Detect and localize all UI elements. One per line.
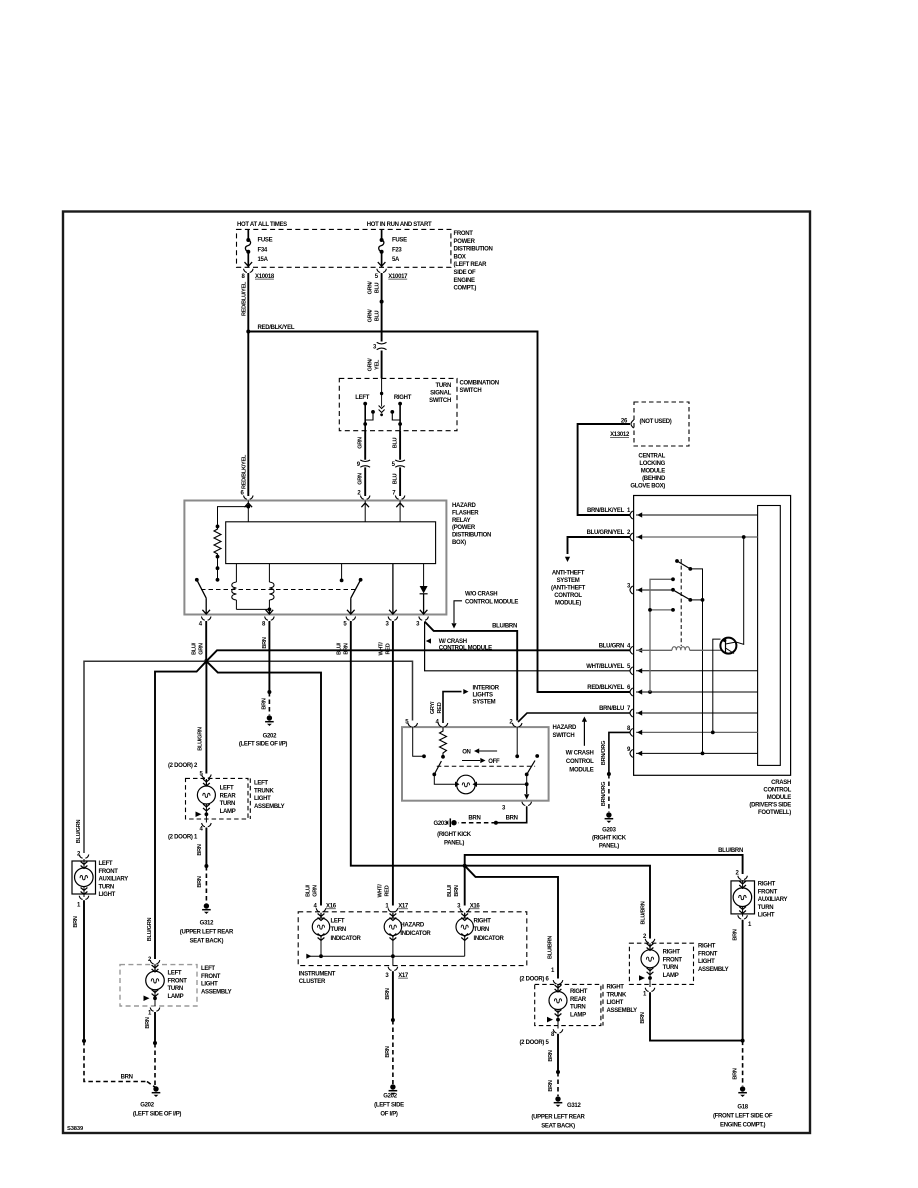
svg-text:3: 3: [502, 806, 506, 812]
svg-text:8: 8: [241, 274, 245, 280]
left trunk light assembly label: [254, 781, 285, 810]
svg-text:W/ CRASH: W/ CRASH: [566, 751, 594, 757]
crash pin 9: [627, 747, 758, 758]
svg-text:ASSEMBLY: ASSEMBLY: [698, 967, 729, 973]
left front light assembly box: [120, 965, 197, 1006]
svg-text:X10017: X10017: [388, 274, 408, 280]
svg-text:BLU/GRN: BLU/GRN: [599, 644, 624, 650]
left front auxiliary turn light pin 2 connector: [77, 852, 89, 859]
right trunk light assembly label: [607, 985, 638, 1014]
svg-text:LIGHT: LIGHT: [254, 796, 271, 802]
crash pin 7: [599, 706, 758, 717]
crash pin 8: [627, 726, 758, 737]
relay pin 3 internal wire: [392, 564, 394, 615]
hazard switch pin 4 connector: [436, 720, 448, 727]
svg-text:REAR: REAR: [220, 793, 237, 799]
in-line connector 5: [392, 460, 405, 468]
svg-text:BLU/GRN: BLU/GRN: [76, 820, 82, 844]
svg-text:BRN: BRN: [145, 1017, 151, 1028]
svg-text:GRN/: GRN/: [368, 358, 374, 372]
hazard switch resistor: [440, 727, 447, 759]
w/o crash control module annotation: [451, 592, 518, 629]
svg-text:X16: X16: [326, 904, 337, 910]
svg-text:BRN: BRN: [262, 637, 268, 648]
svg-text:G203: G203: [602, 828, 616, 834]
svg-text:YEL: YEL: [375, 359, 381, 370]
relay left switch: [195, 578, 206, 615]
node BLU/BRN distribution junction: [463, 864, 467, 868]
svg-text:1: 1: [643, 992, 647, 998]
svg-text:BRN/ORG: BRN/ORG: [601, 741, 607, 765]
left front turn lamp label: [168, 971, 188, 1000]
svg-text:REAR: REAR: [570, 997, 587, 1003]
svg-text:HAZARD: HAZARD: [553, 725, 577, 731]
crash pin 4: [599, 644, 642, 655]
combination switch label: [460, 381, 499, 395]
wire GRN/BLU from X10017 down: [381, 273, 383, 342]
wire BRN right front lamp to junction: [650, 992, 743, 1040]
label BLU/GRN below relay pin 4: [192, 642, 205, 655]
svg-text:8: 8: [262, 622, 266, 628]
svg-text:CENTRAL: CENTRAL: [638, 454, 665, 460]
left front turn lamp: [144, 965, 165, 1006]
svg-text:WHT/: WHT/: [377, 884, 383, 898]
svg-text:FRONT: FRONT: [168, 978, 188, 984]
instrument cluster box: [298, 912, 527, 966]
wire BRN/ORG crash pin 8 to ground: [607, 732, 630, 812]
label BLU/BRN at right indicator: [447, 884, 460, 897]
svg-text:RIGHT: RIGHT: [698, 944, 716, 950]
svg-text:TRUNK: TRUNK: [607, 992, 627, 998]
wire GRY/RED hazard pin 4 to interior lights system: [443, 689, 469, 723]
hazard switch label: [553, 725, 577, 739]
svg-text:SWITCH: SWITCH: [460, 388, 482, 394]
svg-text:BOX: BOX: [454, 254, 466, 260]
svg-text:RIGHT: RIGHT: [758, 882, 776, 888]
relay pin 7 internal wire: [396, 501, 404, 522]
left rear turn lamp: [196, 779, 216, 823]
svg-text:BLU/: BLU/: [447, 884, 453, 897]
svg-text:CONTROL: CONTROL: [566, 759, 594, 765]
svg-text:1: 1: [748, 922, 752, 928]
svg-text:MODULE: MODULE: [641, 469, 665, 475]
cluster connector 4 X16: [313, 904, 336, 912]
svg-text:HOT AT ALL TIMES: HOT AT ALL TIMES: [237, 222, 287, 228]
svg-text:RIGHT: RIGHT: [663, 950, 681, 956]
svg-text:LEFT: LEFT: [201, 966, 215, 972]
wire east arm to hazard switch pin 5: [206, 661, 412, 720]
svg-text:G202: G202: [263, 734, 277, 740]
right front turn lamp: [639, 943, 659, 987]
wire BLU turn switch to relay pin 7: [399, 431, 401, 496]
ground G18 front left side of engine compt: [713, 1086, 773, 1128]
svg-text:3: 3: [385, 973, 389, 979]
svg-text:1: 1: [148, 1011, 152, 1017]
svg-text:4: 4: [200, 827, 204, 833]
relay pin 6 internal wire: [218, 501, 253, 527]
ground G202 left side of IP (cluster): [374, 1084, 404, 1117]
svg-text:OFF: OFF: [488, 759, 500, 765]
svg-text:W/ CRASH: W/ CRASH: [439, 639, 467, 645]
svg-text:3: 3: [373, 344, 377, 350]
cluster connector 1 X17: [385, 904, 409, 912]
left front auxiliary turn light: [72, 859, 96, 897]
relay inner element box: [226, 522, 436, 564]
anti-theft system label: [551, 571, 586, 607]
svg-text:TURN: TURN: [570, 1005, 585, 1011]
svg-text:BRN: BRN: [343, 643, 349, 654]
svg-text:BRN: BRN: [640, 1012, 646, 1023]
wire branch to right rear turn lamp: [465, 866, 558, 979]
wire branch to right front auxiliary turn light: [465, 855, 743, 874]
svg-text:FRONT: FRONT: [663, 957, 683, 963]
crash module linkage dashed: [680, 559, 682, 646]
relay bottom pin 5 connector: [343, 610, 355, 628]
svg-text:CONTROL: CONTROL: [554, 593, 582, 599]
interior lights system label: [473, 686, 500, 706]
svg-text:BRN: BRN: [506, 816, 518, 822]
crash pin 5: [586, 664, 757, 675]
svg-text:RED/BLK/YEL: RED/BLK/YEL: [242, 454, 248, 489]
wire branch to right front turn lamp: [465, 866, 650, 939]
svg-text:1: 1: [77, 903, 81, 909]
svg-text:GRN: GRN: [358, 437, 364, 449]
svg-text:ENGINE: ENGINE: [454, 278, 476, 284]
svg-text:8: 8: [551, 1032, 555, 1038]
relay coil 1: [232, 564, 237, 610]
hazard flasher relay box: [184, 501, 446, 615]
relay top pin 7 connector: [392, 491, 405, 500]
svg-text:BRN: BRN: [468, 816, 480, 822]
svg-text:INSTRUMENT: INSTRUMENT: [299, 972, 336, 978]
svg-text:15A: 15A: [258, 257, 269, 263]
left front light assembly label: [201, 966, 232, 995]
svg-text:BRN: BRN: [385, 1046, 391, 1057]
svg-text:RIGHT: RIGHT: [394, 395, 412, 401]
crash pin 1: [630, 511, 758, 519]
svg-text:(BEHIND: (BEHIND: [642, 476, 666, 482]
svg-text:SWITCH: SWITCH: [429, 398, 451, 404]
hazard switch ON arrow: [462, 748, 497, 755]
wire GRN turn switch to relay pin 2: [364, 431, 366, 496]
svg-text:(UPPER LEFT REAR: (UPPER LEFT REAR: [180, 930, 234, 936]
svg-text:TURN: TURN: [436, 383, 451, 389]
svg-text:BLU/BRN: BLU/BRN: [492, 624, 517, 630]
svg-text:POWER: POWER: [454, 239, 476, 245]
svg-text:BRN: BRN: [121, 1075, 133, 1081]
svg-text:SIDE OF: SIDE OF: [454, 270, 477, 276]
svg-text:FRONT: FRONT: [454, 231, 474, 237]
svg-text:FLASHER: FLASHER: [452, 510, 479, 516]
svg-text:BLU/GRN: BLU/GRN: [147, 918, 153, 942]
svg-text:GRN: GRN: [313, 885, 319, 897]
crash module internal gray rail: [648, 577, 675, 692]
svg-text:BOX): BOX): [452, 540, 466, 546]
svg-text:TURN: TURN: [99, 884, 114, 890]
hazard switch left contact arm: [432, 761, 455, 784]
svg-text:BRN: BRN: [733, 1068, 739, 1079]
svg-text:LIGHT: LIGHT: [607, 1000, 624, 1006]
svg-text:FUSE: FUSE: [392, 238, 407, 244]
svg-text:(RIGHT KICK: (RIGHT KICK: [437, 832, 472, 838]
svg-text:LAMP: LAMP: [220, 809, 236, 815]
label BLU/GRN/YEL pin 2: [587, 530, 631, 536]
turn switch right contact and wire: [390, 402, 402, 431]
right front light assembly box: [629, 943, 693, 984]
relay diode: [420, 564, 428, 615]
svg-text:F23: F23: [392, 247, 402, 253]
svg-text:(DRIVER'S SIDE: (DRIVER'S SIDE: [749, 803, 791, 809]
label WHT/RED at cluster: [377, 884, 390, 898]
label GRY/RED: [430, 701, 443, 714]
svg-text:(FRONT LEFT SIDE OF: (FRONT LEFT SIDE OF: [713, 1114, 773, 1120]
hazard switch right contact arm: [525, 754, 539, 784]
svg-text:LEFT: LEFT: [99, 861, 113, 867]
svg-text:CONTROL MODULE: CONTROL MODULE: [465, 600, 518, 606]
wire WHT/RED relay pin 3 down to hazard indicator: [392, 621, 394, 906]
svg-text:RED: RED: [384, 885, 390, 896]
svg-text:5: 5: [392, 462, 396, 468]
svg-text:GRN: GRN: [358, 473, 364, 485]
turn signal switch pole: [379, 378, 385, 416]
svg-text:LIGHT: LIGHT: [758, 913, 775, 919]
svg-text:S3839: S3839: [67, 1126, 84, 1132]
svg-text:(RIGHT KICK: (RIGHT KICK: [592, 836, 627, 842]
crash module coil on pin 4 row: [636, 647, 722, 651]
wire southwest arm to left front turn lamp: [155, 661, 206, 959]
relay bottom pin 8 connector: [262, 610, 274, 628]
hazard switch pin 3 internal wire with arrow: [524, 784, 529, 799]
svg-text:SYSTEM: SYSTEM: [473, 700, 496, 706]
right trunk pin 8 / (2 DOOR) 5: [519, 1029, 562, 1046]
relay switch linkage (dashed): [201, 589, 356, 591]
relay coil bus: [236, 608, 271, 615]
svg-text:X17: X17: [398, 904, 409, 910]
svg-text:SIGNAL: SIGNAL: [430, 390, 452, 396]
svg-text:1: 1: [551, 968, 555, 974]
svg-text:3: 3: [385, 622, 389, 628]
svg-text:LAMP: LAMP: [168, 994, 184, 1000]
wire crash pin 7 BRN/BLU to hazard switch pin 2: [518, 713, 630, 722]
svg-text:LIGHT: LIGHT: [99, 892, 116, 898]
ground G202 left side of IP (front lamps): [133, 1086, 182, 1117]
svg-text:SWITCH: SWITCH: [553, 733, 575, 739]
svg-text:BLU/BRN: BLU/BRN: [718, 848, 743, 854]
svg-text:G202: G202: [140, 1103, 154, 1109]
svg-text:LEFT: LEFT: [220, 786, 234, 792]
label GRN/YEL: [368, 358, 381, 372]
relay top pin 2 connector: [357, 491, 370, 500]
right rear turn lamp label: [570, 989, 588, 1018]
crash control module label: [749, 780, 791, 816]
node BRN splice: [267, 690, 271, 694]
relay resistor: [214, 525, 221, 582]
node X junction BLU/GRN: [204, 659, 209, 664]
w/ crash control module annotation (left): [426, 638, 492, 651]
label BRN/BLK/YEL pin 1: [587, 508, 631, 514]
svg-text:TURN: TURN: [331, 927, 346, 933]
svg-text:X16: X16: [470, 904, 481, 910]
left trunk pin 4 / (2 DOOR) 1: [168, 823, 211, 841]
svg-text:HAZARD: HAZARD: [452, 503, 476, 509]
fuse F23 5A: [378, 229, 407, 267]
right front auxiliary turn light label: [758, 882, 788, 919]
svg-text:SEAT BACK): SEAT BACK): [190, 939, 224, 945]
right trunk light assembly box: [535, 984, 603, 1025]
wire BRN hazard pin 3 to ground: [458, 806, 527, 824]
svg-text:BRN: BRN: [73, 916, 79, 927]
fuse F34 15A: [245, 229, 273, 267]
svg-text:GRN/: GRN/: [368, 309, 374, 323]
left front turn lamp pin 2 connector: [148, 957, 160, 964]
svg-text:AUXILIARY: AUXILIARY: [99, 877, 129, 883]
relay top pin 6 connector: [240, 491, 253, 500]
right rear turn lamp: [547, 985, 567, 1029]
svg-text:BLU: BLU: [375, 282, 381, 293]
svg-text:ASSEMBLY: ASSEMBLY: [201, 989, 232, 995]
svg-text:COMBINATION: COMBINATION: [460, 381, 499, 387]
svg-text:MODULE): MODULE): [555, 601, 581, 607]
svg-text:TURN: TURN: [168, 986, 183, 992]
wire west arm to left front auxiliary turn light: [84, 661, 206, 853]
svg-text:X10018: X10018: [255, 274, 275, 280]
wire RED/BLK/YEL branch to crash control module pin 6: [248, 332, 630, 693]
turn switch left contact and wire: [363, 402, 375, 431]
svg-text:HOT IN RUN AND START: HOT IN RUN AND START: [367, 222, 432, 228]
wire RED/BLU/YEL from X10018 down to relay pin 6: [247, 273, 249, 496]
svg-text:BRN: BRN: [385, 988, 391, 999]
svg-text:INDICATOR: INDICATOR: [474, 936, 505, 942]
wire BRN cluster to ground: [391, 971, 395, 1084]
svg-text:(UPPER LEFT REAR: (UPPER LEFT REAR: [531, 1115, 585, 1121]
relay bottom pin 3 (diode) connector: [416, 610, 428, 628]
svg-text:RED/BLK/YEL: RED/BLK/YEL: [258, 325, 295, 331]
svg-text:5: 5: [375, 274, 379, 280]
svg-text:BLU/: BLU/: [336, 642, 342, 655]
svg-text:RIGHT: RIGHT: [607, 985, 625, 991]
svg-text:(LEFT SIDE OF I/P): (LEFT SIDE OF I/P): [133, 1112, 182, 1118]
svg-text:DISTRIBUTION: DISTRIBUTION: [454, 247, 493, 253]
svg-text:PANEL): PANEL): [444, 841, 464, 847]
svg-text:(LEFT SIDE: (LEFT SIDE: [374, 1103, 404, 1109]
ground G312 upper left rear seat back: [180, 903, 234, 944]
svg-text:INDICATOR: INDICATOR: [400, 931, 431, 937]
svg-text:G312: G312: [200, 921, 214, 927]
svg-text:G18: G18: [737, 1105, 748, 1111]
ground G312 upper left rear seat back (right): [531, 1096, 585, 1129]
relay pin 2 internal wire: [361, 501, 369, 522]
svg-text:BRN: BRN: [454, 885, 460, 896]
svg-text:TURN: TURN: [758, 905, 773, 911]
in-line connector 3: [373, 342, 387, 350]
svg-text:BRN: BRN: [548, 1080, 554, 1091]
svg-text:SEAT BACK): SEAT BACK): [541, 1124, 575, 1130]
right front turn lamp pin 2 connector: [643, 934, 655, 943]
svg-text:X17: X17: [398, 973, 409, 979]
svg-text:TURN: TURN: [474, 927, 489, 933]
connector X10017 pin 5: [375, 269, 408, 280]
right front auxiliary turn light pin 1 connector: [738, 915, 752, 928]
left trunk light assembly box: [186, 778, 251, 819]
svg-text:3: 3: [416, 622, 420, 628]
svg-text:X13012: X13012: [610, 432, 630, 438]
svg-text:BLU/: BLU/: [192, 642, 198, 655]
right trunk pin 1 / (2 DOOR) 6: [519, 968, 562, 984]
crash pin 2: [630, 533, 758, 541]
cluster connector 3 X16: [457, 904, 480, 912]
wire BLU/GRN/YEL crash pin 2 to anti-theft: [565, 537, 630, 562]
svg-text:MODULE: MODULE: [767, 795, 791, 801]
svg-text:CONTROL MODULE: CONTROL MODULE: [439, 645, 492, 651]
svg-text:BLU/GRN: BLU/GRN: [198, 727, 204, 751]
right front turn lamp pin 1 connector: [643, 988, 655, 998]
svg-text:LEFT: LEFT: [331, 919, 345, 925]
relay right switch feed: [340, 564, 344, 583]
left front turn lamp pin 1 connector: [148, 1008, 160, 1017]
svg-text:2: 2: [736, 871, 740, 877]
relay bottom pin 3 connector: [385, 610, 397, 628]
svg-text:CRASH: CRASH: [771, 780, 791, 786]
svg-text:HAZARD: HAZARD: [400, 923, 424, 929]
svg-text:ASSEMBLY: ASSEMBLY: [254, 804, 285, 810]
cluster ground bus: [306, 954, 464, 959]
crash module upper switch: [675, 559, 702, 753]
wire relay diode pin: thick path to hazard switch pin 2 (w/o crash module): [425, 622, 518, 721]
svg-text:5A: 5A: [392, 257, 400, 263]
svg-text:BLU/BRN: BLU/BRN: [640, 901, 646, 924]
label GRN/BLU upper: [368, 281, 381, 295]
right turn indicator: [456, 913, 505, 957]
svg-text:FRONT: FRONT: [99, 869, 119, 875]
crash pin 6: [587, 685, 757, 696]
svg-text:RIGHT: RIGHT: [570, 989, 588, 995]
left trunk pin (2 DOOR) 2 / 5: [168, 763, 211, 778]
svg-text:PANEL): PANEL): [599, 844, 619, 850]
svg-text:RELAY: RELAY: [452, 518, 471, 524]
left turn indicator: [312, 913, 361, 957]
svg-text:F34: F34: [258, 247, 268, 253]
svg-text:RED/BLU/YEL: RED/BLU/YEL: [242, 281, 248, 316]
svg-text:FUSE: FUSE: [258, 238, 273, 244]
svg-text:BLU/: BLU/: [306, 884, 312, 897]
svg-text:FRONT: FRONT: [758, 889, 778, 895]
label WHT/RED below relay pin 3: [378, 642, 391, 656]
connector X10018 pin 8: [241, 269, 274, 280]
svg-text:OF I/P): OF I/P): [380, 1112, 398, 1118]
svg-text:CLUSTER: CLUSTER: [299, 979, 326, 985]
right front auxiliary turn light pin 2 connector: [736, 871, 748, 880]
svg-text:(2 DOOR) 5: (2 DOOR) 5: [519, 1040, 549, 1046]
svg-text:LAMP: LAMP: [570, 1012, 586, 1018]
ground G203 sideways (right kick panel): [434, 818, 472, 846]
wire BRN left aux to ground: [82, 900, 156, 1087]
svg-text:LIGHTS: LIGHTS: [473, 693, 493, 699]
instrument cluster label: [299, 972, 336, 986]
svg-text:TURN: TURN: [220, 801, 235, 807]
hazard switch pin 5 internal wire: [413, 727, 426, 758]
right front light assembly label: [698, 944, 729, 973]
svg-text:BRN: BRN: [548, 1050, 554, 1061]
svg-text:G203: G203: [434, 821, 448, 827]
svg-text:LAMP: LAMP: [663, 973, 679, 979]
svg-text:(NOT USED): (NOT USED): [640, 419, 672, 425]
central locking module label: [630, 454, 666, 490]
relay bottom pin 4 connector: [199, 610, 211, 628]
crash pin 3: [627, 584, 673, 595]
svg-text:RED/BLK/YEL: RED/BLK/YEL: [587, 685, 624, 691]
wire relay diode pin: thin branch to crash module pin 5 (w/ crash module): [425, 622, 630, 671]
svg-text:SYSTEM: SYSTEM: [557, 578, 580, 584]
